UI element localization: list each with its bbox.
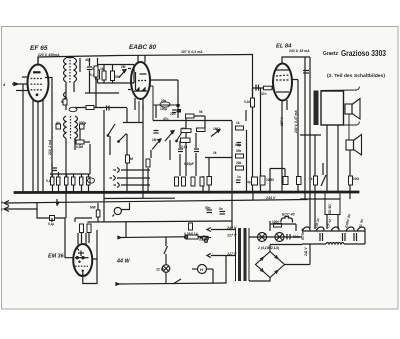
svg-text:4µ: 4µ <box>247 180 251 184</box>
svg-text:5n: 5n <box>219 207 223 211</box>
svg-text:244 V: 244 V <box>265 196 276 200</box>
svg-text:210, 2 mA: 210, 2 mA <box>48 139 52 156</box>
svg-text:30k: 30k <box>236 149 242 153</box>
svg-text:EABC 80: EABC 80 <box>129 44 156 51</box>
svg-text:Graetz: Graetz <box>323 51 338 57</box>
svg-text:0,1µ: 0,1µ <box>48 222 54 226</box>
svg-text:220 V, 450mA: 220 V, 450mA <box>37 53 60 57</box>
svg-text:2 (4,1W/2,1A): 2 (4,1W/2,1A) <box>257 246 280 250</box>
svg-text:5Ω 5Ω: 5Ω 5Ω <box>328 204 332 214</box>
svg-text:1M: 1M <box>152 138 157 142</box>
svg-text:20k: 20k <box>236 161 242 165</box>
svg-text:20Ω: 20Ω <box>353 177 360 181</box>
svg-text:1n: 1n <box>237 175 241 179</box>
svg-text:2k: 2k <box>213 151 217 155</box>
svg-text:0,5M: 0,5M <box>76 145 83 149</box>
svg-text:(2. Teil des Schaltbildes): (2. Teil des Schaltbildes) <box>327 73 385 79</box>
svg-text:EM 36: EM 36 <box>48 254 65 260</box>
svg-text:5k: 5k <box>199 110 203 114</box>
svg-text:157 V: 157 V <box>280 117 284 126</box>
svg-text:44 W: 44 W <box>116 259 130 265</box>
svg-text:241 V: 241 V <box>304 247 308 257</box>
svg-text:2M: 2M <box>121 65 126 69</box>
svg-text:47n: 47n <box>261 92 267 96</box>
svg-text:H: H <box>200 267 203 272</box>
svg-text:187 V, 0,4 mA: 187 V, 0,4 mA <box>181 50 203 54</box>
svg-text:MW: MW <box>90 206 97 210</box>
svg-text:1k: 1k <box>236 121 240 125</box>
svg-text:EF 65: EF 65 <box>30 45 48 52</box>
svg-text:243 V, 38 mA: 243 V, 38 mA <box>288 49 310 53</box>
svg-text:Grazioso 3303: Grazioso 3303 <box>341 48 386 58</box>
svg-text:100µ: 100µ <box>160 107 167 111</box>
